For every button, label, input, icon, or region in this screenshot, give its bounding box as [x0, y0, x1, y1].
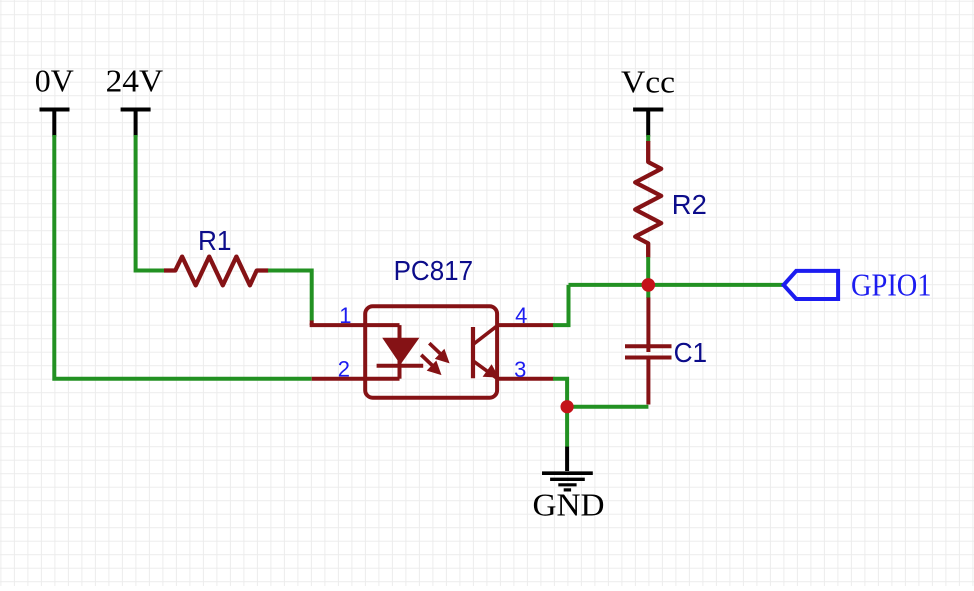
wire R1 to pin1 corner	[268, 271, 312, 322]
wire R2 to junction	[646, 257, 650, 285]
optocoupler U1 pin 4	[497, 323, 554, 327]
wire 24V vertical + run to R1	[136, 135, 165, 271]
optocoupler U1 pin 2	[312, 377, 400, 381]
wire pin3 to lower junction	[553, 379, 567, 407]
wire junction to C1	[646, 285, 650, 298]
svg-text:4: 4	[515, 303, 527, 328]
LED light arrow lower	[421, 355, 441, 375]
svg-text:GPIO1: GPIO1	[851, 268, 932, 303]
phototransistor inside optocoupler	[473, 326, 499, 379]
svg-text:24V: 24V	[106, 63, 164, 98]
svg-text:PC817: PC817	[394, 255, 474, 286]
wire stub red into pin1	[310, 321, 314, 326]
optocoupler U1 body PC817	[365, 255, 497, 398]
svg-text:GND: GND	[533, 488, 605, 523]
wire Vcc stem green	[646, 135, 650, 142]
junction dot top	[642, 278, 656, 292]
capacitor C1	[625, 298, 707, 405]
junction dot bottom	[561, 400, 574, 413]
optocoupler U1 pin 1	[310, 323, 400, 327]
wire lower net under C1	[567, 405, 648, 409]
resistor R2	[635, 141, 707, 258]
svg-text:R1: R1	[198, 225, 232, 256]
net flag GPIO1	[784, 268, 932, 303]
resistor R1	[164, 225, 269, 285]
svg-text:1: 1	[339, 303, 351, 328]
power port 24V	[106, 63, 164, 136]
svg-text:R2: R2	[672, 189, 707, 220]
wire top net to GPIO1	[569, 283, 784, 287]
LED inside optocoupler	[377, 325, 424, 379]
LED light arrow upper	[429, 343, 449, 363]
wire 0V vertical + bottom run to pin2	[54, 135, 311, 379]
wire GND stem green	[565, 407, 569, 447]
wire pin4 up to top net	[553, 285, 569, 325]
power port 0V	[35, 63, 74, 136]
svg-text:3: 3	[514, 357, 526, 382]
svg-text:C1: C1	[674, 337, 708, 368]
svg-text:0V: 0V	[35, 63, 74, 98]
optocoupler U1 pin 3	[497, 377, 554, 381]
power port Vcc	[621, 64, 675, 136]
svg-text:2: 2	[338, 357, 350, 382]
svg-text:Vcc: Vcc	[621, 64, 675, 99]
ground symbol GND	[533, 447, 605, 523]
